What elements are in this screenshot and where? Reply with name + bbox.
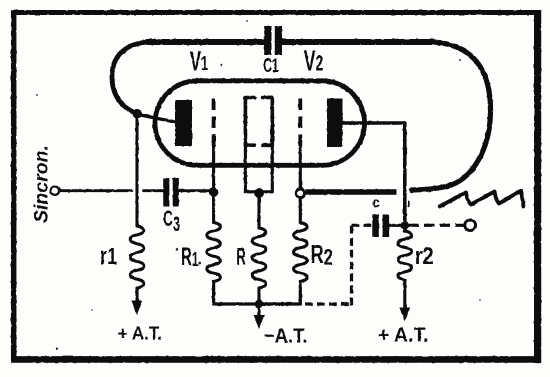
node G2 open circle	[296, 189, 304, 197]
border frame bottom	[11, 356, 541, 363]
wire cathode U link	[245, 145, 272, 192]
anode plate V1	[175, 100, 192, 146]
svg-text:−A.T.: −A.T.	[264, 325, 308, 348]
mark speck near output	[408, 201, 410, 207]
node G1 / C3 / R1 junction	[209, 188, 218, 197]
node cathode junction	[254, 188, 264, 198]
resistor R	[252, 228, 266, 288]
wire r2 arrow shaft	[403, 280, 406, 308]
resistor r2	[398, 231, 412, 280]
arrow r2 to +A.T.	[399, 308, 410, 322]
terminal Sincron. input circle	[51, 187, 59, 195]
wire thick grid2 feed line	[305, 189, 396, 195]
resistor R2	[294, 223, 308, 282]
node R bus junction	[255, 300, 263, 308]
svg-text:r2: r2	[415, 242, 434, 269]
anode plate V2	[327, 99, 343, 148]
wire dashed to output terminal	[409, 224, 465, 227]
wire sync line right of r1 crossing	[144, 189, 164, 192]
wire grid G2 down	[299, 147, 302, 190]
resistor r1	[130, 226, 144, 288]
svg-text:C1: C1	[263, 54, 278, 77]
svg-text:R1: R1	[181, 243, 199, 271]
border frame right	[534, 10, 541, 363]
svg-text:r1: r1	[100, 243, 117, 270]
svg-text:c: c	[372, 195, 380, 211]
wire c to anode wire	[389, 224, 401, 227]
wire C3 to grid node	[179, 189, 209, 192]
svg-text:R: R	[236, 243, 246, 270]
wire r1 drop from anode node	[135, 118, 138, 226]
svg-text:C3: C3	[163, 206, 180, 236]
wire R arrow shaft	[257, 288, 260, 315]
cathode left bracket	[245, 98, 254, 146]
svg-text:V2: V2	[304, 45, 324, 77]
wire feedback arc right	[412, 42, 491, 190]
tube envelope V1+V2	[155, 81, 365, 166]
wire dashed to capacitor c	[352, 224, 372, 227]
wire left loop curve (top line down to anode node)	[112, 42, 148, 114]
ink specks	[36, 20, 481, 350]
svg-text:R2: R2	[311, 240, 333, 271]
wire anode V1 lead	[138, 115, 175, 123]
capacitor C1 plates	[264, 26, 271, 55]
node anode V1 junction	[133, 109, 143, 119]
border frame left	[11, 10, 17, 362]
svg-text:Sincron.: Sincron.	[31, 145, 53, 223]
wire anode V2 lead	[343, 121, 405, 124]
wire dashed bus extension	[305, 302, 352, 305]
grid G1 (dashed electrode)	[212, 99, 216, 147]
wire cathode down to R	[257, 193, 260, 228]
sawtooth output waveform	[440, 191, 524, 207]
wire sync line left segment	[59, 189, 131, 192]
arrow R to -A.T.	[254, 315, 265, 329]
wire grid G1 down	[212, 147, 215, 223]
wire top coupling line right (C1 to feedback arc)	[282, 39, 434, 45]
arrow r1 to +A.T.	[131, 301, 142, 316]
border frame top	[11, 10, 540, 15]
wire top coupling line left (V1 anode to C1)	[147, 39, 265, 45]
node output tap	[401, 221, 409, 229]
wire r1 arrow shaft	[135, 288, 138, 301]
wire bottom bus R1-R2	[214, 282, 301, 305]
svg-text:V1: V1	[190, 45, 208, 77]
wire V2 anode vertical down to r2	[403, 123, 407, 231]
capacitor c plates	[372, 215, 379, 238]
wire G2 node down to R2	[299, 198, 302, 223]
grid G2 (dashed electrode)	[298, 99, 302, 147]
capacitor C3 plates	[163, 178, 169, 207]
resistor R1	[207, 223, 221, 282]
cathode right bracket	[263, 98, 272, 146]
terminal output circle	[465, 220, 476, 231]
svg-text:+ A.T.: + A.T.	[378, 324, 428, 346]
wire dashed vertical riser	[350, 225, 353, 305]
svg-text:+ A.T.: + A.T.	[118, 323, 162, 344]
